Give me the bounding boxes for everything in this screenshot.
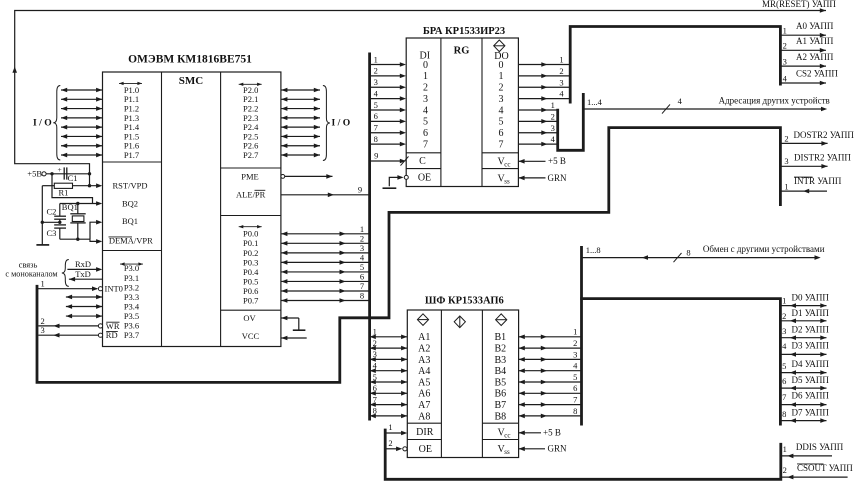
svg-text:3: 3: [783, 56, 787, 66]
wire jog from +5B node down to BQ2 row: [52, 174, 93, 204]
label MR(RESET) УАПП: [762, 0, 836, 9]
svg-text:1: 1: [783, 26, 787, 36]
svg-text:Адресация других устройств: Адресация других устройств: [719, 95, 830, 105]
pin label PME: [241, 171, 258, 181]
wire capacitor midpoint to ground rail: [42, 221, 61, 224]
svg-text:R1: R1: [59, 188, 69, 198]
ground symbol left: [36, 244, 49, 246]
brace left P1 group: [53, 86, 60, 161]
svg-text:GRN: GRN: [548, 444, 568, 454]
svg-text:4: 4: [499, 105, 504, 116]
label OE БРА: [418, 173, 431, 184]
svg-text:P3.0: P3.0: [124, 263, 139, 273]
pin number 1 DIR: [388, 422, 392, 432]
pin labels A1-A8 B1-B8: [418, 332, 506, 422]
svg-text:A0 УАПП: A0 УАПП: [796, 21, 834, 31]
svg-text:C3: C3: [47, 228, 57, 238]
pin label RST/VPD: [113, 181, 148, 191]
svg-text:A7: A7: [418, 400, 430, 411]
pin labels P1.0-P1.7: [119, 82, 142, 160]
wire ground rail left: [41, 186, 44, 245]
svg-text:8: 8: [360, 291, 364, 301]
svg-text:2: 2: [559, 66, 563, 76]
pin label WR (overlined): [106, 321, 120, 331]
bidirectional qualifier diamond middle: [454, 316, 465, 328]
svg-text:7: 7: [782, 392, 786, 402]
svg-text:P3.1: P3.1: [124, 273, 139, 283]
svg-text:4: 4: [783, 73, 788, 83]
svg-text:A3: A3: [418, 355, 430, 366]
wire GRN to Vss БРА: [518, 173, 567, 183]
bus: A0-CS2 group to УАПП: [570, 27, 780, 104]
label DIR: [416, 427, 434, 438]
svg-text:D2 УАПП: D2 УАПП: [792, 325, 830, 335]
label RxD: [75, 259, 91, 269]
svg-text:B7: B7: [494, 400, 506, 411]
svg-text:связь: связь: [19, 259, 38, 269]
pin label ALE/PR (overlined PR): [236, 190, 266, 200]
wire RST/VPD row: [42, 183, 102, 188]
svg-text:B1: B1: [494, 332, 506, 343]
wire INT0 with inversion circle: [37, 286, 103, 291]
svg-text:6: 6: [360, 272, 364, 282]
svg-text:2: 2: [551, 111, 555, 121]
bus: multiplexed address-data (vertical, P0/ALE to БРА and ШФ): [368, 53, 371, 421]
svg-text:C: C: [419, 156, 426, 167]
wires A0,A1,A2,CS2 to УАПП with pin numbers: [780, 21, 838, 85]
svg-text:P3.6: P3.6: [124, 321, 139, 331]
svg-text:2: 2: [360, 233, 364, 243]
svg-text:3: 3: [784, 156, 788, 166]
bus: D0-D7 branch to УАПП: [580, 299, 780, 426]
label Vss ШФ: [498, 444, 511, 456]
svg-text:1: 1: [499, 71, 504, 82]
svg-text:DIR: DIR: [416, 427, 434, 438]
pin label OV: [243, 313, 256, 323]
svg-text:D3 УАПП: D3 УАПП: [792, 341, 830, 351]
pin number 2 DOSTR2: [784, 133, 788, 143]
bidirectional qualifier diamond B side: [496, 314, 507, 326]
svg-text:0: 0: [423, 60, 428, 71]
wire MR(RESET) feedback loop from RST node to top-right: [15, 11, 826, 186]
svg-text:2: 2: [499, 83, 504, 94]
pin label DEMA/VPR (overlined DEMA): [109, 236, 154, 246]
svg-text:6: 6: [499, 128, 504, 139]
svg-text:D4 УАПП: D4 УАПП: [792, 359, 830, 369]
svg-text:1: 1: [40, 278, 44, 288]
pin label BQ2: [122, 199, 138, 209]
svg-text:+5B: +5B: [27, 169, 42, 179]
svg-text:1: 1: [559, 55, 563, 65]
wire DOSTR2 УАПП: [780, 130, 854, 146]
svg-text:B5: B5: [494, 377, 506, 388]
svg-text:OV: OV: [243, 313, 256, 323]
svg-text:PME: PME: [241, 171, 258, 181]
label TxD: [75, 269, 91, 279]
svg-text:B8: B8: [494, 411, 506, 422]
label БРА КР1533ИР23: [423, 26, 505, 37]
svg-text:C2: C2: [47, 206, 57, 216]
svg-text:B4: B4: [494, 366, 506, 377]
pin label BQ1: [122, 216, 138, 226]
svg-text:BQ1: BQ1: [122, 216, 138, 226]
svg-text:4: 4: [782, 341, 787, 351]
wire INTR УАПП (overlined INTR): [780, 176, 841, 193]
bus: DDIS/CSOUT to ШФ DIR/OE: [385, 429, 781, 480]
svg-text:7: 7: [423, 139, 428, 150]
svg-text:1: 1: [388, 422, 392, 432]
capacitor C2: [47, 204, 67, 223]
svg-text:A2 УАПП: A2 УАПП: [796, 52, 834, 62]
wire OV with ground symbol: [281, 316, 305, 331]
svg-text:SMC: SMC: [179, 75, 204, 87]
pin label RD (overlined): [106, 330, 118, 340]
svg-text:4: 4: [360, 252, 365, 262]
wire to BQ1 pin: [90, 220, 102, 239]
pin labels P0.0-P0.7: [239, 225, 262, 305]
bidirectional port wires P1 I/O: [61, 88, 102, 158]
svg-text:P0.4: P0.4: [243, 267, 259, 277]
svg-text:4: 4: [373, 361, 378, 371]
svg-text:P3.7: P3.7: [124, 330, 139, 340]
svg-text:1: 1: [551, 100, 555, 110]
svg-text:OE: OE: [418, 173, 431, 184]
svg-text:+: +: [58, 165, 62, 174]
svg-text:БРА КР1533ИР23: БРА КР1533ИР23: [423, 26, 505, 37]
svg-text:P3.3: P3.3: [124, 292, 139, 302]
svg-text:cc: cc: [504, 160, 510, 168]
wire BQ2 row: [60, 201, 103, 206]
svg-text:2: 2: [374, 66, 378, 76]
svg-text:2: 2: [783, 465, 787, 475]
svg-text:1: 1: [783, 444, 787, 454]
label Vss БРА: [498, 173, 511, 185]
svg-text:DDIS УАПП: DDIS УАПП: [796, 442, 844, 452]
pin number 9 ALE: [358, 184, 362, 194]
svg-text:D5 УАПП: D5 УАПП: [792, 375, 830, 385]
wire OE input with circle: [385, 447, 407, 452]
svg-text:A4: A4: [418, 366, 430, 377]
label ШФ КР1533АП6: [425, 295, 504, 306]
wire VCC: [281, 336, 307, 341]
wires DO4-DO7 to expansion bus: [518, 100, 557, 146]
svg-text:1: 1: [423, 71, 428, 82]
arrowhead up on MR feedback vertical: [12, 67, 17, 73]
svg-text:A1: A1: [418, 332, 430, 343]
label 1...4: [587, 97, 603, 107]
svg-text:5: 5: [499, 117, 504, 128]
svg-text:3: 3: [360, 243, 364, 253]
wire to DEMA/VPR pin: [90, 239, 102, 244]
svg-text:INTR УАПП: INTR УАПП: [794, 176, 842, 186]
label связь с моноканалом: [5, 259, 57, 278]
svg-text:+5 В: +5 В: [548, 156, 566, 166]
svg-text:P3.2: P3.2: [124, 282, 139, 292]
label C: [419, 156, 426, 167]
wire RxD into P3.0: [67, 267, 102, 272]
svg-text:ОМЭВМ КМ1816ВЕ751: ОМЭВМ КМ1816ВЕ751: [128, 54, 252, 66]
svg-text:BQ1: BQ1: [62, 202, 78, 212]
svg-text:4: 4: [678, 96, 683, 106]
wire RD output with circle: [38, 333, 102, 338]
svg-text:P0.7: P0.7: [243, 295, 258, 305]
wires DO0-DO3 to address branch bus: [518, 55, 570, 101]
svg-text:1...4: 1...4: [587, 97, 603, 107]
svg-text:+5 В: +5 В: [543, 428, 561, 438]
wire +5 В to Vcc БРА: [518, 156, 565, 166]
svg-text:8: 8: [686, 247, 690, 257]
svg-text:3: 3: [559, 77, 563, 87]
svg-text:1: 1: [782, 295, 786, 305]
svg-text:1: 1: [373, 327, 377, 337]
crystal BQ1: [62, 202, 86, 239]
wire WR output with circle: [38, 324, 102, 329]
wire CSOUT УАПП (overlined CSOUT): [781, 463, 853, 479]
microcontroller DD1 ОМЭВМ КМ1816ВЕ751 body: [103, 72, 281, 347]
svg-text:6: 6: [374, 111, 378, 121]
svg-text:9: 9: [358, 184, 362, 194]
arrowhead MR line right end: [820, 8, 826, 13]
svg-text:2: 2: [783, 41, 787, 51]
svg-text:2: 2: [388, 438, 392, 448]
svg-text:4: 4: [573, 361, 578, 371]
label I/O left: [33, 117, 52, 128]
svg-text:A8: A8: [418, 411, 430, 422]
svg-text:P3.4: P3.4: [124, 301, 140, 311]
svg-text:5: 5: [360, 262, 364, 272]
svg-text:P0.2: P0.2: [243, 248, 258, 258]
svg-text:D6 УАПП: D6 УАПП: [792, 390, 830, 400]
svg-text:8: 8: [373, 406, 377, 416]
wire C clock input with slash: [370, 156, 409, 165]
pin labels P3.0-P3.7: [120, 262, 143, 340]
svg-text:I / O: I / O: [332, 117, 351, 128]
wire DDIS УАПП: [781, 442, 844, 458]
svg-text:A2: A2: [418, 344, 430, 355]
pin label VCC: [242, 331, 260, 341]
svg-text:9: 9: [374, 150, 378, 160]
pin number 9 C input: [374, 150, 378, 160]
svg-text:D0 УАПП: D0 УАПП: [792, 293, 830, 303]
svg-text:2: 2: [782, 311, 786, 321]
svg-text:8: 8: [782, 409, 786, 419]
bidirectional qualifier diamond A side: [417, 314, 428, 326]
svg-text:P3.5: P3.5: [124, 311, 139, 321]
wire crystal bottom rail: [60, 238, 90, 241]
svg-text:с моноканалом: с моноканалом: [5, 269, 57, 278]
label I/O right: [332, 117, 351, 128]
bus: control signals INT0/WR/RD to УАПП: [37, 128, 780, 383]
svg-text:P2.7: P2.7: [243, 150, 258, 160]
label DI: [420, 51, 431, 62]
svg-text:P0.6: P0.6: [243, 286, 258, 296]
svg-text:3: 3: [40, 325, 44, 335]
output qualifier diamond БРА: [494, 40, 505, 52]
svg-text:CSOUT УАПП: CSOUT УАПП: [797, 463, 853, 473]
svg-text:I / O: I / O: [33, 117, 52, 128]
svg-text:1: 1: [374, 54, 378, 64]
svg-text:P0.0: P0.0: [243, 229, 258, 239]
svg-text:1: 1: [784, 182, 788, 192]
label Vcc БРА: [498, 156, 511, 168]
svg-text:7: 7: [499, 139, 504, 150]
svg-text:C1: C1: [68, 173, 78, 183]
svg-text:Обмен с другими устройствами: Обмен с другими устройствами: [703, 244, 825, 254]
wire GRN to Vss ШФ: [519, 444, 567, 454]
svg-text:4: 4: [551, 134, 556, 144]
wire Адресация других устройств: [583, 95, 829, 113]
power terminal +5B: [27, 169, 46, 179]
svg-text:A1 УАПП: A1 УАПП: [796, 36, 834, 46]
pin labels P2.0-P2.7: [239, 83, 262, 160]
label Vcc ШФ: [498, 427, 511, 439]
svg-text:3: 3: [573, 349, 577, 359]
svg-text:RST/VPD: RST/VPD: [113, 181, 148, 191]
bidirectional data/address wires P0.0-P0.7 with pin numbers: [281, 224, 369, 303]
wire OE input with circle and ground: [383, 175, 409, 188]
svg-text:7: 7: [573, 395, 577, 405]
capacitor C3: [47, 225, 67, 239]
wire DISTR2 УАПП: [780, 152, 851, 168]
svg-text:DOSTR2 УАПП: DOSTR2 УАПП: [794, 130, 855, 140]
svg-text:6: 6: [573, 383, 577, 393]
pin number 2 WR: [40, 316, 44, 326]
svg-text:3: 3: [551, 123, 555, 133]
svg-text:8: 8: [573, 406, 577, 416]
svg-text:A6: A6: [418, 389, 430, 400]
svg-text:5: 5: [782, 361, 786, 371]
svg-text:CS2 УАПП: CS2 УАПП: [796, 69, 838, 79]
pin number 3 DISTR2: [784, 156, 788, 166]
bus: external data bus (B side): [580, 246, 583, 426]
svg-text:1: 1: [360, 224, 364, 234]
pin number 1 INTR: [784, 182, 788, 192]
wire +5 В to Vcc ШФ: [519, 428, 561, 438]
pin number 1 DDIS: [783, 444, 787, 454]
svg-text:INT0: INT0: [105, 284, 123, 294]
svg-text:3: 3: [782, 326, 786, 336]
brace RxD TxD group: [62, 260, 69, 287]
svg-text:7: 7: [374, 123, 378, 133]
bidirectional wires B1-B8 to data bus: [519, 327, 582, 419]
capacitor C1 (electrolytic, + mark): [58, 165, 78, 183]
svg-text:MR(RESET) УАПП: MR(RESET) УАПП: [762, 0, 836, 9]
wire TxD out of P3.1: [69, 277, 103, 282]
svg-text:0: 0: [499, 60, 504, 71]
svg-text:ss: ss: [504, 177, 510, 185]
svg-text:B3: B3: [494, 355, 506, 366]
svg-text:8: 8: [374, 134, 378, 144]
resistor R1: [54, 183, 72, 197]
pin number 1 INT0: [40, 278, 44, 288]
label 1...8: [586, 245, 601, 255]
svg-text:2: 2: [573, 338, 577, 348]
label OE ШФ: [419, 444, 432, 455]
svg-text:3: 3: [374, 77, 378, 87]
svg-text:P0.5: P0.5: [243, 276, 258, 286]
svg-text:BQ2: BQ2: [122, 199, 138, 209]
brace right P2 group: [323, 86, 330, 161]
svg-text:7: 7: [360, 281, 364, 291]
svg-text:1...8: 1...8: [586, 245, 601, 255]
bus transceiver ШФ КР1533АП6 body: [407, 310, 518, 458]
wire ALE/PR to address bus: [281, 193, 370, 198]
svg-text:OE: OE: [419, 444, 432, 455]
svg-text:6: 6: [423, 128, 428, 139]
svg-text:P0.1: P0.1: [243, 238, 258, 248]
svg-text:RxD: RxD: [75, 259, 91, 269]
wires DI inputs 1-8 from address bus: [370, 54, 406, 146]
svg-text:5: 5: [374, 100, 378, 110]
pin number 2 OE ШФ: [388, 438, 392, 448]
svg-text:GRN: GRN: [548, 173, 568, 183]
svg-text:5: 5: [423, 117, 428, 128]
label RG: [454, 45, 470, 56]
wire Обмен с другими устройствами: [582, 244, 825, 262]
wire DIR input: [385, 431, 407, 436]
label SMC: [179, 75, 204, 87]
svg-text:5: 5: [373, 372, 377, 382]
svg-text:B6: B6: [494, 389, 506, 400]
register bit labels 0-7: [423, 60, 504, 151]
svg-text:2: 2: [423, 83, 428, 94]
pin label INT0: [105, 284, 123, 294]
svg-text:5: 5: [573, 372, 577, 382]
label DO: [494, 51, 508, 62]
svg-text:6: 6: [782, 376, 786, 386]
svg-text:3: 3: [423, 94, 428, 105]
svg-text:VCC: VCC: [242, 331, 260, 341]
svg-text:RG: RG: [454, 45, 470, 56]
svg-text:cc: cc: [504, 431, 510, 439]
pin number 2 CSOUT: [783, 465, 787, 475]
svg-text:7: 7: [373, 394, 377, 404]
register БРА КР1533ИР23 body: [406, 38, 518, 187]
svg-text:D7 УАПП: D7 УАПП: [792, 407, 830, 417]
svg-text:3: 3: [373, 349, 377, 359]
svg-text:4: 4: [374, 88, 379, 98]
bidirectional wires A1-A8 from address bus: [370, 327, 408, 419]
label ОМЭВМ КМ1816ВЕ751: [128, 54, 252, 66]
svg-text:DISTR2 УАПП: DISTR2 УАПП: [794, 152, 851, 162]
pin number 3 RD: [40, 325, 44, 335]
svg-text:ALE/PR: ALE/PR: [236, 190, 266, 200]
svg-text:4: 4: [423, 105, 428, 116]
svg-text:ШФ КР1533АП6: ШФ КР1533АП6: [425, 295, 504, 306]
wire +5B rail to RST node: [46, 172, 91, 187]
bus: other-device address group: [558, 93, 584, 150]
svg-text:P0.3: P0.3: [243, 257, 258, 267]
bidirectional port wires P2 I/O: [281, 88, 320, 158]
svg-text:TxD: TxD: [75, 269, 91, 279]
svg-text:4: 4: [559, 89, 564, 99]
bidirectional wires D0-D7 УАПП with pin numbers: [780, 293, 829, 423]
bidirectional port wires P3.3-P3.5: [66, 295, 102, 319]
svg-text:D1 УАПП: D1 УАПП: [792, 308, 830, 318]
svg-text:ss: ss: [504, 448, 510, 456]
svg-text:B2: B2: [494, 344, 506, 355]
svg-text:1: 1: [573, 327, 577, 337]
svg-text:2: 2: [784, 133, 788, 143]
wire PME output with circle: [281, 174, 333, 179]
svg-text:6: 6: [373, 383, 377, 393]
svg-text:A5: A5: [418, 377, 430, 388]
svg-text:P1.7: P1.7: [124, 150, 139, 160]
svg-text:3: 3: [499, 94, 504, 105]
svg-text:2: 2: [373, 338, 377, 348]
